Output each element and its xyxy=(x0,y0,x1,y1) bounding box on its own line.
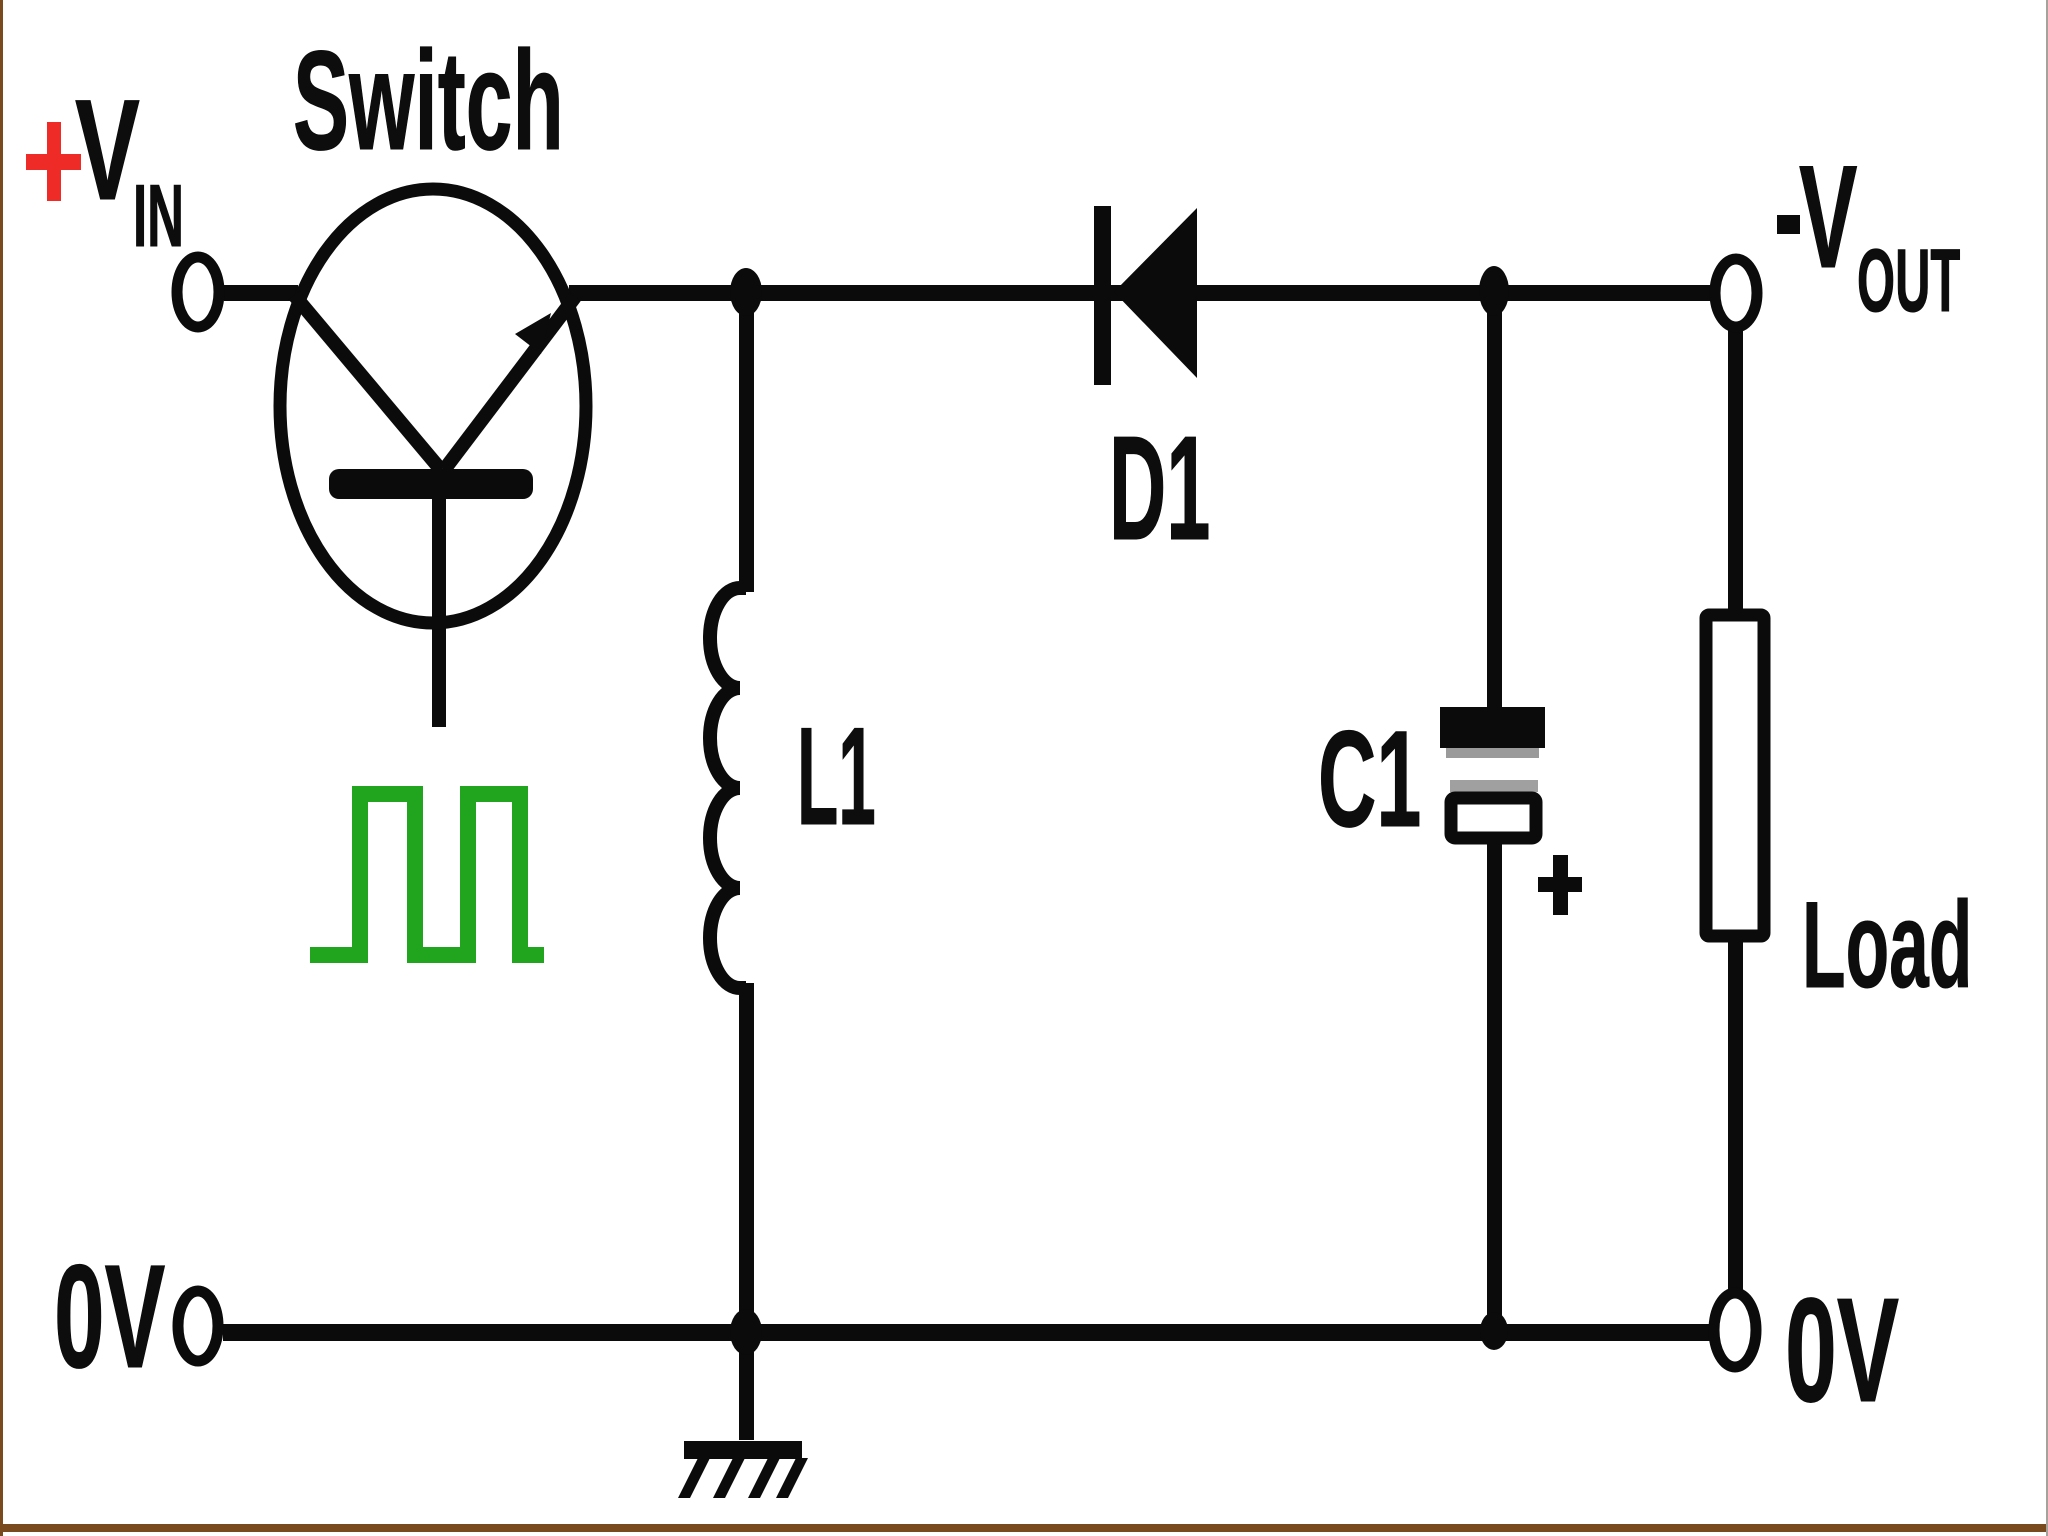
svg-text:Switch: Switch xyxy=(293,21,564,179)
svg-text:C1: C1 xyxy=(1318,702,1421,855)
svg-text:V: V xyxy=(1799,135,1857,299)
svg-text:OUT: OUT xyxy=(1857,232,1960,331)
svg-text:L1: L1 xyxy=(797,699,876,854)
svg-text:D1: D1 xyxy=(1109,407,1210,572)
svg-text:IN: IN xyxy=(133,168,184,266)
svg-text:V: V xyxy=(75,69,140,229)
svg-text:0V: 0V xyxy=(1785,1268,1899,1433)
svg-text:Load: Load xyxy=(1802,877,1972,1014)
svg-text:0V: 0V xyxy=(54,1234,165,1399)
